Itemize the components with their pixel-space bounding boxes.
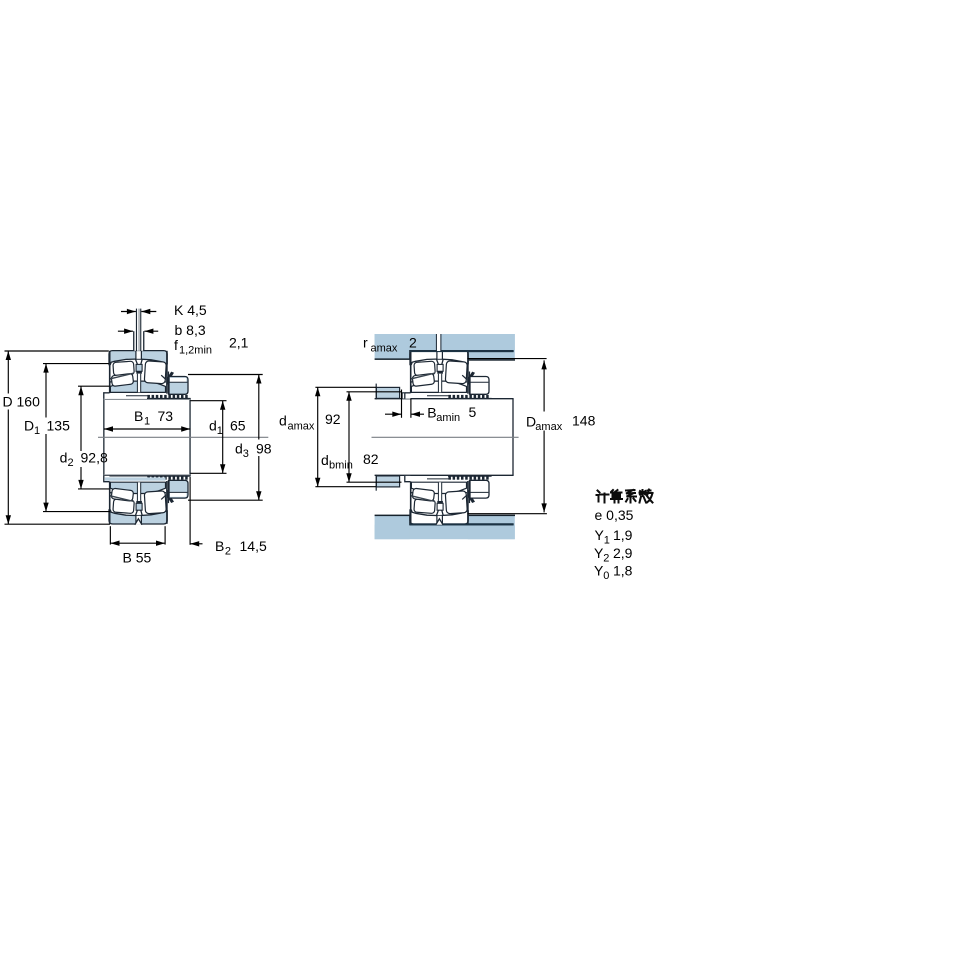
svg-text:D 160: D 160 <box>3 393 41 409</box>
svg-text:3: 3 <box>243 448 249 460</box>
svg-text:r: r <box>363 335 368 351</box>
svg-text:65: 65 <box>230 418 246 434</box>
svg-text:f: f <box>174 337 178 353</box>
svg-text:82: 82 <box>363 451 379 467</box>
svg-text:B: B <box>215 538 224 554</box>
svg-text:B 55: B 55 <box>123 549 152 565</box>
svg-text:B: B <box>427 404 436 420</box>
svg-text:1,2min: 1,2min <box>179 345 212 357</box>
svg-text:148: 148 <box>572 413 596 429</box>
svg-text:92: 92 <box>325 411 341 427</box>
svg-text:K 4,5: K 4,5 <box>174 302 207 318</box>
svg-text:98: 98 <box>256 441 272 457</box>
svg-text:amax: amax <box>535 421 562 433</box>
svg-text:d: d <box>235 441 243 457</box>
svg-text:135: 135 <box>47 417 71 433</box>
svg-text:d: d <box>209 418 217 434</box>
svg-text:2: 2 <box>603 553 609 565</box>
svg-text:D: D <box>24 417 34 433</box>
svg-text:B: B <box>134 408 143 424</box>
svg-text:2: 2 <box>225 545 231 557</box>
svg-text:d: d <box>60 449 68 465</box>
svg-text:5: 5 <box>469 404 477 420</box>
svg-text:92,8: 92,8 <box>81 449 108 465</box>
svg-text:e 0,35: e 0,35 <box>595 507 634 523</box>
svg-text:1: 1 <box>34 425 40 437</box>
svg-text:73: 73 <box>158 408 174 424</box>
svg-text:14,5: 14,5 <box>240 538 267 554</box>
svg-text:1: 1 <box>604 534 610 546</box>
svg-text:bmin: bmin <box>329 459 353 471</box>
svg-text:2: 2 <box>409 335 417 351</box>
svg-text:amax: amax <box>371 343 398 355</box>
svg-text:2: 2 <box>68 457 74 469</box>
svg-text:2,1: 2,1 <box>229 335 249 351</box>
svg-text:1,9: 1,9 <box>613 527 633 543</box>
svg-text:d: d <box>279 413 287 429</box>
svg-text:b 8,3: b 8,3 <box>175 322 206 338</box>
svg-text:1,8: 1,8 <box>613 563 633 579</box>
svg-text:2,9: 2,9 <box>613 545 633 561</box>
svg-text:d: d <box>321 452 329 468</box>
svg-text:0: 0 <box>603 570 609 582</box>
svg-text:amax: amax <box>288 420 315 432</box>
svg-text:1: 1 <box>144 415 150 427</box>
svg-text:1: 1 <box>217 425 223 437</box>
svg-text:amin: amin <box>436 412 460 424</box>
